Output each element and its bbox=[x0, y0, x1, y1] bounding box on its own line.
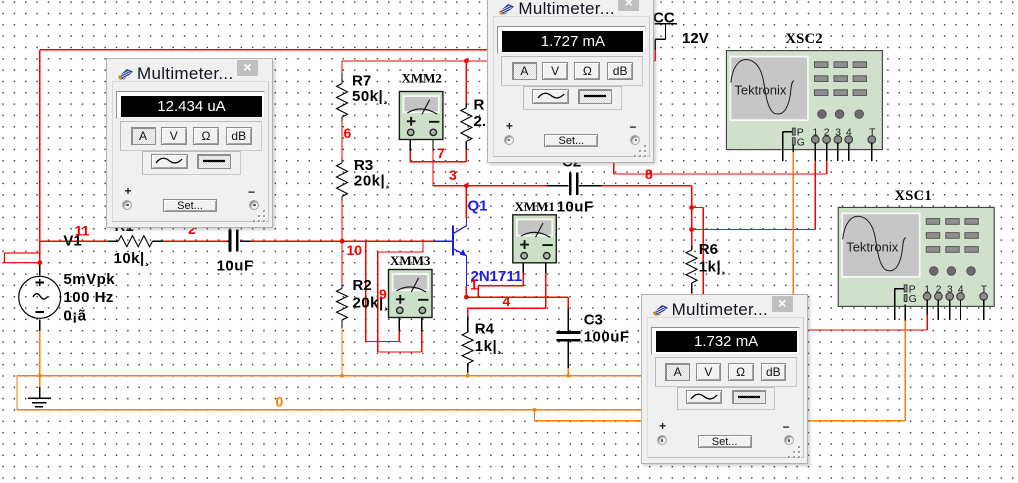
XMM3 lead stubs bbox=[398, 312, 400, 331]
junction ground R2 bbox=[340, 374, 344, 378]
C2 pin stubs bbox=[547, 185, 569, 187]
oscilloscope XSC1 bbox=[838, 207, 994, 306]
AC source V1 bbox=[19, 276, 61, 318]
XSC1 pin stub wires bbox=[895, 288, 905, 290]
wire node2 R1-C1 bbox=[162, 240, 227, 242]
svg-text:Tektronix: Tektronix bbox=[846, 239, 899, 254]
wire XMM1 minus to R4 bbox=[545, 273, 547, 308]
resistor R5 (partially hidden) bbox=[461, 108, 472, 142]
wire node10 C1 to base of Q1 bbox=[251, 240, 434, 242]
svg-text:3: 3 bbox=[449, 167, 457, 183]
svg-text:Q1: Q1 bbox=[468, 198, 488, 215]
multimeter dialog window XMM1 meter (1.732 mA) bbox=[641, 294, 808, 464]
svg-text:XSC2: XSC2 bbox=[786, 31, 823, 47]
svg-text:11: 11 bbox=[75, 223, 90, 239]
junction ground C3 bbox=[566, 374, 570, 378]
resistor R6 1k bbox=[686, 250, 697, 283]
junction ground bus jog bbox=[533, 408, 537, 412]
R6 pin stubs bbox=[691, 246, 693, 250]
svg-text:XMM1: XMM1 bbox=[515, 199, 555, 214]
wire XMM2 minus to node3 bbox=[432, 151, 434, 186]
R7 pin stubs bbox=[341, 73, 343, 84]
svg-text:100 Hz: 100 Hz bbox=[63, 289, 114, 306]
VCC power symbol bbox=[654, 23, 676, 25]
wire net11 V1 to input (red vertical) bbox=[39, 50, 41, 263]
svg-text:0: 0 bbox=[276, 394, 284, 410]
wire XMM3 minus to base line bbox=[421, 331, 423, 352]
svg-text:4: 4 bbox=[503, 293, 511, 309]
junction node1 bbox=[464, 295, 469, 300]
wire V1 ground drop bbox=[39, 331, 41, 376]
svg-text:6: 6 bbox=[344, 125, 352, 141]
junction node3 bbox=[464, 183, 469, 188]
svg-text:XMM3: XMM3 bbox=[390, 253, 431, 268]
wire XSC1 pin1 lead bbox=[807, 329, 927, 331]
wire node1 to C3 (net4) bbox=[466, 296, 568, 298]
svg-text:1: 1 bbox=[470, 277, 478, 293]
wire net8 branch to XSC1 ch1 (hidden behind meter dialog) bbox=[692, 207, 704, 209]
svg-text:XSC1: XSC1 bbox=[895, 188, 932, 204]
transistor Q1 2N1711 bbox=[452, 225, 454, 255]
svg-text:C3: C3 bbox=[584, 312, 603, 329]
wire node2 input line V1-R1 bbox=[40, 240, 108, 242]
wire node10 R3 to junction bbox=[341, 201, 343, 242]
wire XMM1 plus to node1 line bbox=[522, 273, 524, 286]
svg-text:5mVpk: 5mVpk bbox=[63, 271, 115, 288]
wire net8 to XSC2 pin1 bbox=[692, 229, 816, 231]
svg-text:R: R bbox=[474, 97, 485, 114]
wire net11 to XSC2 pin2 bbox=[614, 173, 827, 175]
svg-text:1k|¸: 1k|¸ bbox=[699, 259, 727, 276]
svg-text:G: G bbox=[797, 136, 805, 148]
capacitor C2 10uF (output coupling) bbox=[569, 173, 572, 196]
resistor R1 10k (input) bbox=[118, 236, 152, 247]
wire VCC rail (red) bbox=[342, 60, 655, 62]
junction VCC/R5 bbox=[464, 59, 469, 64]
wire R2 ground drop bbox=[341, 328, 343, 376]
wire node7 R5 bottom to XMM2 plus bbox=[465, 150, 467, 162]
wire ground bus upper (net 0) bbox=[17, 375, 641, 377]
svg-text:100uF: 100uF bbox=[584, 329, 630, 346]
resistor R2 20k bbox=[337, 289, 348, 321]
wire R5 top to VCC rail bbox=[465, 61, 467, 104]
resistor R4 1k bbox=[462, 332, 473, 363]
capacitor C1 10uF (input coupling) bbox=[229, 229, 232, 251]
capacitor C3 100uF (bypass) bbox=[557, 331, 581, 334]
svg-text:2.: 2. bbox=[474, 113, 487, 130]
multimeter icon XMM3 bbox=[389, 270, 433, 318]
svg-text:XMM2: XMM2 bbox=[402, 71, 442, 86]
multimeter icon XMM2 bbox=[399, 92, 443, 140]
wire ground XSC2 G drop bbox=[792, 152, 794, 294]
multimeter dialog window XMM2 meter (1.727 mA) bbox=[487, 0, 654, 163]
wire ground bus jog at C3 column bbox=[534, 410, 536, 421]
svg-text:R3: R3 bbox=[354, 157, 373, 174]
wire net8 R6 bottom stub red bbox=[691, 293, 693, 294]
svg-text:12V: 12V bbox=[682, 30, 709, 47]
input port connector (red box) bbox=[4, 253, 39, 263]
wire ground bus lower (net 0) bbox=[17, 409, 641, 411]
resistor R3 20k bbox=[337, 163, 348, 197]
junction net8 lower bbox=[689, 227, 694, 232]
R5 pin stubs bbox=[465, 104, 467, 108]
resistor R7 50k bbox=[337, 84, 348, 118]
wire node6 R7-R3 bbox=[341, 121, 343, 159]
svg-text:10: 10 bbox=[347, 242, 363, 258]
svg-text:7: 7 bbox=[437, 145, 445, 161]
XMM1 lead stubs bbox=[522, 256, 524, 273]
multimeter dialog window XMM3 meter (12.434 uA) bbox=[106, 58, 273, 228]
R3 pin stubs bbox=[341, 159, 343, 163]
svg-text:2N1711: 2N1711 bbox=[471, 268, 523, 285]
ground symbol bbox=[39, 387, 41, 398]
C1 pin stubs bbox=[227, 240, 228, 242]
wire C3 ground drop bbox=[567, 368, 569, 376]
junction ground R4 bbox=[466, 374, 470, 378]
svg-text:0¡ã: 0¡ã bbox=[63, 308, 86, 325]
wire net11 drop right of dialog XMM2-meter bbox=[613, 50, 615, 174]
svg-text:20k|¸: 20k|¸ bbox=[354, 173, 391, 190]
wire R7 top to VCC rail bbox=[341, 61, 343, 73]
wire XMM3 plus to base line bbox=[398, 331, 400, 342]
V1 pin stubs bbox=[39, 263, 41, 276]
svg-text:9: 9 bbox=[379, 286, 387, 302]
wire ground to XSC1 G bbox=[807, 420, 905, 422]
C3 pin stubs bbox=[567, 309, 569, 332]
wire R4 ground drop bbox=[467, 373, 469, 376]
svg-text:R7: R7 bbox=[352, 73, 371, 90]
wire net8 C2 to R6 column bbox=[602, 185, 692, 187]
svg-text:G: G bbox=[909, 293, 917, 305]
svg-text:Tektronix: Tektronix bbox=[734, 83, 787, 98]
svg-text:1k|¸: 1k|¸ bbox=[475, 338, 503, 355]
R2 pin stubs bbox=[341, 285, 343, 289]
XMM2 lead stubs bbox=[409, 134, 411, 151]
svg-text:8: 8 bbox=[645, 166, 653, 182]
wire node3 to Q1 collector bbox=[465, 186, 467, 219]
junction net8 upper bbox=[689, 205, 694, 210]
wire node10 junction to R2 bbox=[341, 241, 343, 284]
junction node11 at V1 top bbox=[37, 260, 42, 265]
multimeter icon XMM1 bbox=[513, 215, 557, 263]
wire ground stub below bus bbox=[39, 376, 41, 388]
wire VCC drop bbox=[654, 50, 656, 61]
XSC2 pin stub wires bbox=[783, 131, 793, 133]
wire net8 column down to R6 bbox=[691, 186, 693, 246]
oscilloscope XSC2 bbox=[726, 51, 882, 150]
junction node10 bbox=[340, 239, 345, 244]
wire node3 to C2 bbox=[466, 185, 546, 187]
svg-text:R6: R6 bbox=[699, 241, 718, 258]
R1 pin stubs bbox=[108, 240, 118, 242]
wire emitter to node1 bbox=[465, 286, 467, 297]
svg-text:10uF: 10uF bbox=[557, 199, 594, 216]
junction ground V1 bbox=[38, 374, 42, 378]
svg-text:50k|¸: 50k|¸ bbox=[352, 88, 389, 105]
svg-text:R4: R4 bbox=[475, 321, 495, 338]
svg-text:10k|¸: 10k|¸ bbox=[114, 250, 151, 267]
wire net11 V1 top rail to XSC2 ch2 (red, passes above dialog) bbox=[40, 49, 614, 51]
svg-text:R2: R2 bbox=[353, 277, 372, 294]
svg-text:10uF: 10uF bbox=[217, 258, 254, 275]
wire ground bus left drop bbox=[16, 376, 18, 410]
R4 pin stubs bbox=[467, 316, 469, 332]
